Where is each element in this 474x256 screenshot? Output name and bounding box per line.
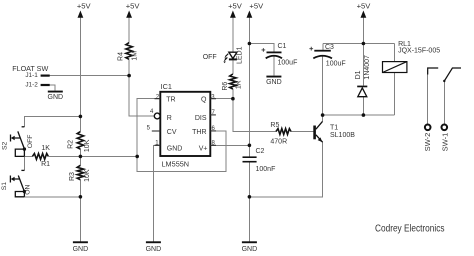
capacitor C1 plus sign bbox=[262, 48, 266, 52]
wire TR pin2 to trigger node bbox=[137, 99, 160, 157]
svg-text:D1: D1 bbox=[355, 70, 362, 79]
svg-text:GND: GND bbox=[167, 146, 183, 153]
svg-text:R5: R5 bbox=[270, 122, 279, 129]
svg-text:SW-2: SW-2 bbox=[423, 133, 432, 152]
svg-text:C3: C3 bbox=[325, 44, 334, 51]
junction node TR/THR tie bbox=[135, 155, 139, 159]
wire S1 bottom to ground rail bbox=[24, 196, 80, 198]
wire T1 emitter to ground rail bbox=[249, 142, 322, 197]
+5V symbol arrow 1 bbox=[78, 11, 84, 18]
junction node +5V/C1 bbox=[248, 42, 252, 46]
IC1 pin4 inversion bubble bbox=[154, 113, 160, 119]
junction node D1 anode bbox=[362, 113, 366, 117]
junction node S2/divider bbox=[79, 115, 83, 119]
svg-text:OFF: OFF bbox=[27, 135, 34, 149]
svg-text:T1: T1 bbox=[330, 124, 338, 131]
connector pad SW-1 bbox=[442, 125, 448, 131]
wire V+ pin8 to rail bbox=[210, 144, 249, 146]
svg-text:470R: 470R bbox=[270, 139, 287, 146]
svg-text:GND: GND bbox=[73, 246, 89, 253]
svg-text:J1-2: J1-2 bbox=[25, 82, 38, 89]
junction node collector rail bbox=[321, 113, 325, 117]
svg-text:TR: TR bbox=[166, 96, 175, 103]
svg-text:2: 2 bbox=[156, 94, 160, 100]
resistor R2 zigzag bbox=[77, 132, 83, 150]
wire +5V to LED1 and R6 to Q node bbox=[232, 17, 234, 99]
svg-text:4: 4 bbox=[150, 109, 154, 115]
wire +5V rail to R4 (x=129.1) bbox=[129, 17, 154, 116]
svg-text:R1: R1 bbox=[41, 161, 50, 168]
junction node Q/LED/R5 bbox=[231, 97, 235, 101]
svg-text:GND: GND bbox=[146, 246, 162, 253]
+5V symbol arrow 3 bbox=[230, 11, 236, 18]
svg-text:+5V: +5V bbox=[228, 1, 243, 10]
+5V symbol arrow 2 bbox=[126, 11, 132, 18]
svg-text:J1-1: J1-1 bbox=[25, 72, 38, 79]
svg-text:R: R bbox=[167, 115, 172, 122]
wire GND pin1 drop bbox=[153, 145, 160, 241]
resistor R1 zigzag bbox=[32, 154, 48, 160]
svg-text:C2: C2 bbox=[256, 148, 265, 155]
svg-text:+5V: +5V bbox=[77, 1, 92, 10]
ground symbol bottom middle bbox=[146, 241, 161, 243]
svg-text:THR: THR bbox=[192, 129, 206, 136]
relay contact SW-2 fixed bbox=[428, 68, 439, 75]
svg-text:JQX-15F-005: JQX-15F-005 bbox=[398, 48, 440, 55]
+5V symbol arrow 4 bbox=[247, 11, 253, 18]
svg-text:5: 5 bbox=[147, 126, 151, 132]
svg-text:1M: 1M bbox=[132, 51, 139, 61]
wire relay +5V rail horizontal bbox=[323, 43, 395, 45]
svg-text:3: 3 bbox=[211, 94, 215, 100]
resistor R6 zigzag bbox=[230, 74, 236, 89]
svg-text:+5V: +5V bbox=[357, 1, 372, 10]
svg-text:ON: ON bbox=[24, 185, 31, 195]
wire S2 top terminal to divider node bbox=[24, 116, 80, 126]
connector pad SW-2 bbox=[425, 125, 431, 131]
wire relay contact SW-2 drop bbox=[427, 70, 429, 124]
capacitor C1 plates bbox=[267, 52, 282, 54]
wire +5V rail to R2/R3 divider (x=80.4) bbox=[79, 17, 81, 242]
junction node S1/R3/GND bbox=[79, 195, 83, 199]
ground symbol bottom left bbox=[73, 241, 88, 243]
svg-text:100uF: 100uF bbox=[278, 59, 298, 66]
ground symbol bottom right bbox=[242, 241, 257, 243]
wire +5V / V+ / C2 line (x=249.4) bbox=[248, 17, 250, 242]
svg-text:V+: V+ bbox=[199, 146, 208, 153]
connector pin J1-2 bbox=[41, 84, 50, 86]
junction node V+/C2 bbox=[248, 144, 252, 148]
switch S2 pivot dot bbox=[23, 147, 26, 150]
wire relay coil stubs bbox=[394, 44, 396, 116]
transistor T1 collector/emitter bbox=[316, 121, 323, 142]
+5V symbol arrow 5 bbox=[361, 11, 367, 18]
connector pin J1-1 bbox=[41, 75, 50, 77]
junction node J1-1/R4 bbox=[127, 74, 131, 78]
wire J1-1 to R4 node bbox=[50, 75, 129, 77]
wire collector rail to relay bbox=[323, 115, 395, 121]
capacitor C3 plus sign bbox=[309, 47, 313, 51]
ground symbol at C1 bbox=[266, 76, 281, 78]
wire THR pin6 loop under IC bbox=[137, 131, 226, 172]
svg-text:S1: S1 bbox=[1, 182, 8, 191]
svg-text:IC1: IC1 bbox=[161, 82, 172, 91]
svg-text:100nF: 100nF bbox=[256, 166, 276, 173]
LED1 emission arrowheads bbox=[224, 57, 226, 59]
relay RL1 coil box bbox=[383, 62, 407, 73]
svg-text:GND: GND bbox=[48, 94, 64, 101]
capacitor C2 plates bbox=[243, 156, 257, 158]
svg-text:1N4007: 1N4007 bbox=[364, 55, 371, 80]
svg-text:R3: R3 bbox=[69, 172, 76, 181]
svg-text:Codrey Electronics: Codrey Electronics bbox=[375, 223, 445, 234]
wire C3 stub from rail bbox=[322, 44, 324, 116]
svg-text:10K: 10K bbox=[84, 169, 91, 182]
svg-text:10K: 10K bbox=[84, 139, 91, 152]
wire C1 branch from +5V bbox=[249, 44, 274, 76]
svg-text:R6: R6 bbox=[222, 82, 229, 91]
svg-text:100uF: 100uF bbox=[326, 61, 346, 68]
wire S2/R1 to trigger node bbox=[24, 156, 137, 170]
svg-text:GND: GND bbox=[266, 79, 282, 86]
transistor T1 emitter arrow bbox=[318, 137, 323, 142]
svg-text:LED1: LED1 bbox=[236, 46, 243, 64]
capacitor C3 plates bbox=[314, 50, 331, 52]
wire Q pin3 to LED/R5 node bbox=[210, 98, 233, 100]
junction node +5V relay rail bbox=[362, 42, 366, 46]
ground symbol at J1-2 bbox=[48, 91, 63, 93]
svg-text:GND: GND bbox=[242, 246, 258, 253]
svg-text:R4: R4 bbox=[117, 52, 124, 61]
wire Q node to R5 to T1 base bbox=[233, 99, 314, 132]
IC1 LM555N body bbox=[160, 92, 210, 156]
switch S2 bbox=[11, 127, 25, 157]
svg-text:Q: Q bbox=[201, 96, 207, 103]
diode D1 bbox=[357, 86, 367, 88]
junction node C2/emitter ground bbox=[248, 195, 252, 199]
svg-text:1K: 1K bbox=[41, 145, 50, 152]
svg-text:+5V: +5V bbox=[126, 1, 141, 10]
wire +5V arrow to relay rail bbox=[362, 17, 364, 115]
resistor R3 zigzag bbox=[77, 165, 83, 180]
resistor R4 zigzag bbox=[126, 43, 132, 60]
svg-text:+5V: +5V bbox=[249, 1, 264, 10]
svg-text:CV: CV bbox=[167, 129, 177, 136]
relay contact SW-1 arm bbox=[444, 68, 461, 81]
svg-text:S2: S2 bbox=[2, 142, 9, 151]
svg-text:LM555N: LM555N bbox=[162, 159, 190, 168]
wire J1-2 to GND bbox=[50, 85, 55, 91]
svg-text:C1: C1 bbox=[278, 43, 287, 50]
svg-text:1K: 1K bbox=[236, 80, 243, 89]
resistor R5 zigzag bbox=[276, 129, 291, 135]
wire relay contact SW-1 drop bbox=[443, 81, 445, 124]
svg-text:R2: R2 bbox=[68, 140, 75, 149]
switch S1 actuator arrow bbox=[11, 177, 15, 182]
transistor T1 base bar bbox=[313, 126, 316, 140]
IC1 pin stubs bbox=[152, 99, 216, 146]
switch S1 pivot dot bbox=[23, 190, 26, 193]
svg-text:SL100B: SL100B bbox=[330, 132, 355, 139]
svg-text:SW-1: SW-1 bbox=[440, 133, 449, 152]
switch S2 actuator arrow bbox=[11, 136, 15, 141]
svg-text:DIS: DIS bbox=[195, 115, 207, 122]
junction node trigger R1/R2/R3 bbox=[79, 155, 83, 159]
svg-text:OFF: OFF bbox=[203, 54, 217, 61]
LED1 symbol bbox=[224, 52, 237, 60]
switch S1 bbox=[10, 170, 24, 196]
